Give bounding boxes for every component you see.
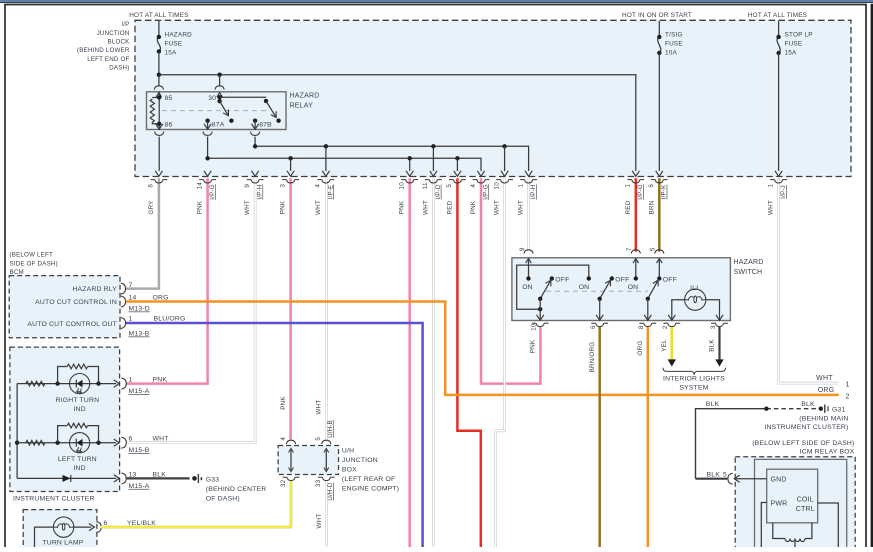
hazard fuse F1 <box>157 37 160 52</box>
U/H pass wire 5-33 <box>325 449 327 472</box>
svg-text:INSTRUMENT CLUSTER): INSTRUMENT CLUSTER) <box>764 424 848 431</box>
diode cluster <box>63 475 71 482</box>
svg-text:RED: RED <box>446 200 453 214</box>
svg-text:(BEHIND LOWER: (BEHIND LOWER <box>77 47 130 54</box>
switch pin10 bracket <box>536 323 544 326</box>
BCM pin1 bracket <box>121 318 126 329</box>
svg-text:1: 1 <box>846 381 850 388</box>
svg-text:HOT AT ALL TIMES: HOT AT ALL TIMES <box>748 12 807 19</box>
node common2 <box>598 297 602 301</box>
switch pin9 bracket <box>524 250 533 254</box>
hazard switch box <box>512 258 731 321</box>
node OFF3 <box>657 276 661 280</box>
wire BRN to switch pin5 <box>658 178 661 251</box>
svg-text:PNK: PNK <box>529 339 536 353</box>
svg-text:CTRL: CTRL <box>796 506 815 513</box>
svg-text:9: 9 <box>244 184 251 188</box>
svg-text:I/P-G: I/P-G <box>637 184 644 199</box>
svg-text:OF DASH): OF DASH) <box>206 496 240 503</box>
svg-text:M15-A: M15-A <box>129 388 150 395</box>
svg-text:FUSE: FUSE <box>165 40 183 47</box>
svg-text:8: 8 <box>638 325 645 329</box>
wire YEL interior <box>670 327 673 361</box>
wire RED to switch pin7 <box>635 178 638 251</box>
next page left border <box>871 4 873 547</box>
node relay 87A contact <box>229 119 233 123</box>
svg-text:ON: ON <box>579 284 590 291</box>
svg-text:10: 10 <box>399 182 406 190</box>
wire ILL left leg <box>672 300 685 321</box>
svg-text:M15-A: M15-A <box>129 483 150 490</box>
BCM pin7 bracket <box>121 283 126 294</box>
wire drop 325 <box>325 146 327 171</box>
wire BRN/ORG <box>598 327 601 547</box>
relay 86 arrow <box>156 124 163 130</box>
svg-text:INSTRUMENT CLUSTER: INSTRUMENT CLUSTER <box>13 495 95 502</box>
svg-text:PNK: PNK <box>280 200 287 214</box>
node busB 409 <box>408 156 412 160</box>
wire right turn row <box>17 383 116 385</box>
svg-text:WHT: WHT <box>316 514 323 529</box>
svg-text:DASH): DASH) <box>109 65 129 72</box>
svg-text:32: 32 <box>280 479 287 487</box>
wire PNK pin10 <box>408 178 411 547</box>
BCM box <box>9 276 120 338</box>
svg-text:I/P-J: I/P-J <box>780 185 787 199</box>
relay pin86 bracket <box>155 132 164 136</box>
node ON3 <box>634 276 638 280</box>
node busA 433 <box>431 144 435 148</box>
svg-text:BLK: BLK <box>153 471 167 478</box>
node relay 30a <box>217 95 221 99</box>
wire WHT pin1 to switch <box>527 178 530 251</box>
svg-text:G31: G31 <box>832 407 845 414</box>
svg-text:IND: IND <box>73 465 85 472</box>
node loop bottom <box>538 307 542 311</box>
node lt b <box>96 441 100 445</box>
cluster pin13 arrow <box>114 475 120 482</box>
bus fuse horizontal <box>159 75 636 171</box>
node relay 86 <box>157 122 161 126</box>
wire COIL CTRL lead <box>818 503 839 547</box>
ground G31 <box>819 407 823 411</box>
svg-text:BLK: BLK <box>801 401 815 408</box>
wire fuse3 down <box>778 53 780 171</box>
svg-text:U/H-B: U/H-B <box>327 420 334 438</box>
I/P junction block box <box>135 20 851 176</box>
node busA 504 <box>502 144 506 148</box>
resistor left turn shunt <box>58 426 68 443</box>
svg-text:7: 7 <box>626 247 633 251</box>
relay pin87A bracket <box>203 132 212 136</box>
svg-text:ORG: ORG <box>818 387 835 394</box>
svg-text:6: 6 <box>129 436 133 443</box>
hazard relay box <box>147 92 287 130</box>
wire BLK to G33 <box>126 477 190 479</box>
node rt a <box>55 381 59 385</box>
relay pin87B bracket <box>251 132 260 136</box>
resistor right turn shunt <box>58 367 68 384</box>
cluster pin6 arrow <box>114 439 120 446</box>
node relay 30b <box>217 99 221 103</box>
svg-text:WHT: WHT <box>153 436 169 443</box>
wire BLK icm up <box>696 409 767 479</box>
svg-text:AUTO CUT CONTROL OUT: AUTO CUT CONTROL OUT <box>27 321 117 328</box>
cluster pin1 arrow <box>114 380 120 387</box>
wire 86 to exit <box>158 137 160 171</box>
svg-text:STOP LP: STOP LP <box>785 32 813 39</box>
node common3 <box>646 297 650 301</box>
svg-text:BLK: BLK <box>706 401 720 408</box>
exit pin 1 RED x635.8 <box>632 171 639 177</box>
svg-text:TURN LAMP: TURN LAMP <box>42 539 83 546</box>
wire BLK to GND <box>696 478 728 480</box>
resistor right turn <box>26 381 45 386</box>
svg-text:AUTO CUT CONTROL IN: AUTO CUT CONTROL IN <box>35 299 117 306</box>
exit pin 3 PNK x290.6 <box>287 171 294 177</box>
svg-text:3: 3 <box>710 325 717 329</box>
node trunk left turn <box>15 441 19 445</box>
svg-text:87A: 87A <box>212 122 225 129</box>
svg-text:(LEFT REAR OF: (LEFT REAR OF <box>342 476 395 483</box>
wire drop 457 <box>456 158 458 171</box>
svg-text:BRN: BRN <box>648 200 655 214</box>
svg-text:IND: IND <box>73 406 85 413</box>
node fuse bus left <box>157 73 161 77</box>
svg-text:RIGHT TURN: RIGHT TURN <box>56 397 100 404</box>
switch arm3 <box>648 280 658 299</box>
wire common2 down <box>599 299 601 321</box>
svg-text:15A: 15A <box>165 49 178 56</box>
relay pin30 bracket <box>215 86 224 90</box>
wire fuse2 down <box>658 53 660 171</box>
svg-text:WHT: WHT <box>518 200 525 215</box>
relay bus 30 to right arm <box>220 96 266 98</box>
node common1 <box>538 297 542 301</box>
relay coil wire 85-86 <box>158 92 160 130</box>
node relay right arm top <box>264 99 268 103</box>
svg-text:OFF: OFF <box>555 276 569 283</box>
svg-text:15A: 15A <box>785 49 798 56</box>
wire WHT pin9 <box>126 178 255 442</box>
svg-text:BCM: BCM <box>10 269 24 276</box>
wire WHT I/P-J <box>779 178 839 383</box>
node ON1 <box>526 276 530 280</box>
LED left turn ind <box>70 433 90 453</box>
svg-text:BLU/ORG: BLU/ORG <box>154 316 186 323</box>
svg-text:4: 4 <box>470 184 477 188</box>
ICM coil <box>773 523 785 539</box>
wire common3 down <box>647 299 649 321</box>
svg-text:G33: G33 <box>206 477 219 484</box>
wire ORG auto cut in <box>126 302 839 395</box>
wire common1 down <box>539 299 541 321</box>
svg-text:RELAY: RELAY <box>290 103 314 110</box>
svg-text:5: 5 <box>315 437 322 441</box>
svg-text:U/H-D: U/H-D <box>327 482 334 501</box>
wire drop 409 <box>409 158 411 171</box>
wire relay 87A down <box>207 121 209 130</box>
BCM pin14 bracket <box>121 296 126 307</box>
node lt a <box>55 441 59 445</box>
svg-text:7: 7 <box>129 282 133 289</box>
svg-text:14: 14 <box>196 182 203 190</box>
svg-text:T/SIG: T/SIG <box>665 32 683 39</box>
relay switch arm left <box>220 101 229 116</box>
svg-text:FUSE: FUSE <box>785 40 803 47</box>
node busB 87A <box>205 156 209 160</box>
U/H junction box <box>278 446 338 475</box>
switch arm1 <box>540 280 551 299</box>
svg-text:BOX: BOX <box>342 467 357 474</box>
svg-text:6: 6 <box>590 325 597 329</box>
wire PNK pin3 <box>289 178 292 439</box>
wire pin7 to ON3 <box>635 258 637 278</box>
exit pin 4 WHT x325.9 <box>322 171 329 177</box>
svg-text:ENGINE COMPT): ENGINE COMPT) <box>342 485 399 492</box>
svg-text:WHT: WHT <box>816 375 833 382</box>
svg-text:M13-D: M13-D <box>129 306 150 313</box>
switch pin7 bracket <box>631 250 640 254</box>
svg-text:I/P-D: I/P-D <box>435 184 442 199</box>
wire PNK pin4 to switch <box>481 178 540 383</box>
svg-text:HAZARD RLY: HAZARD RLY <box>72 286 117 293</box>
svg-text:1: 1 <box>767 184 774 188</box>
svg-text:COIL: COIL <box>797 496 814 503</box>
node BLK splice <box>764 407 768 411</box>
svg-text:1: 1 <box>517 184 524 188</box>
ICM inner box <box>755 459 847 550</box>
svg-text:PNK: PNK <box>197 200 204 214</box>
lamp ILL <box>685 289 706 310</box>
exit pin 4 PNK x481 <box>477 171 484 177</box>
svg-text:GRY: GRY <box>148 200 155 215</box>
exit pin 1 WHT x778.6 <box>775 171 782 177</box>
relay switch arm right <box>266 101 276 117</box>
cluster trunk wire <box>16 384 18 479</box>
svg-text:M15-B: M15-B <box>129 447 150 454</box>
svg-text:10: 10 <box>531 323 538 331</box>
node relay 87B <box>253 119 257 123</box>
svg-text:BLOCK: BLOCK <box>108 39 131 46</box>
svg-text:ICM RELAY BOX: ICM RELAY BOX <box>800 448 855 455</box>
wire fuse3 feed <box>778 21 780 37</box>
wire PWR lead <box>761 503 766 548</box>
ICM module box <box>767 469 818 523</box>
svg-text:WHT: WHT <box>494 200 501 215</box>
svg-text:6: 6 <box>148 184 155 188</box>
relay coil K1 <box>152 97 159 99</box>
wire pin5 to OFF3 <box>658 258 660 278</box>
LED right turn ind <box>70 374 90 394</box>
svg-text:FUSE: FUSE <box>665 40 683 47</box>
wire WHT pin4 <box>325 178 328 439</box>
svg-text:I/P-E: I/P-E <box>327 185 334 200</box>
svg-text:ON: ON <box>628 284 639 291</box>
node busB 290 <box>288 156 292 160</box>
wire ground row <box>17 477 116 479</box>
svg-text:5: 5 <box>723 472 727 479</box>
svg-text:M13-B: M13-B <box>129 331 150 338</box>
wire turn lamp left <box>35 527 54 547</box>
turn lamp box <box>23 510 97 550</box>
wire drop 433 <box>432 146 434 171</box>
node relay 87B contact <box>276 119 280 123</box>
svg-text:LEFT END OF: LEFT END OF <box>87 56 129 63</box>
svg-text:2: 2 <box>662 325 669 329</box>
svg-text:WHT: WHT <box>422 200 429 215</box>
wire WHT pin11 <box>432 178 435 547</box>
svg-text:I/P-K: I/P-K <box>661 184 668 199</box>
svg-text:(BELOW LEFT SIDE OF DASH): (BELOW LEFT SIDE OF DASH) <box>752 440 854 447</box>
switch pin2 bracket <box>668 323 676 326</box>
svg-text:33: 33 <box>315 479 322 487</box>
switch pin3 bracket <box>716 323 724 326</box>
svg-text:10: 10 <box>493 182 500 190</box>
svg-text:87B: 87B <box>259 122 272 129</box>
U/H pin4 bracket <box>286 440 295 444</box>
switch arm2 <box>600 280 611 299</box>
wire YEL/BLK <box>101 480 291 527</box>
node ON2 <box>587 276 591 280</box>
svg-text:I/P-H: I/P-H <box>257 184 264 199</box>
wire ORG switch <box>647 327 650 547</box>
svg-text:85: 85 <box>165 95 173 102</box>
exit pin 14 PNK x207.6 <box>204 171 211 177</box>
wire fuse2 feed <box>658 21 660 37</box>
svg-text:WHT: WHT <box>768 200 775 215</box>
wire drop 504 <box>504 146 506 171</box>
node rt b <box>96 381 100 385</box>
t/sig fuse F2 <box>658 37 661 53</box>
U/H pin33 bracket <box>322 477 330 480</box>
svg-text:INTERIOR LIGHTS: INTERIOR LIGHTS <box>663 376 725 383</box>
wire fuse1 to bus <box>158 51 160 86</box>
switch loop <box>517 265 589 309</box>
exit pin 1 WHT x528.6 <box>525 171 532 177</box>
node busA 87B <box>253 144 257 148</box>
svg-text:HOT IN ON OR START: HOT IN ON OR START <box>622 12 692 19</box>
svg-text:GND: GND <box>771 477 787 484</box>
svg-text:I/P-G: I/P-G <box>482 184 489 199</box>
bus B <box>208 137 481 171</box>
wire WHT below U/H <box>325 481 328 547</box>
svg-text:ON: ON <box>522 284 533 291</box>
switch mech link <box>546 290 648 292</box>
wire GRY pin6 <box>126 178 159 288</box>
svg-text:4: 4 <box>315 184 322 188</box>
svg-text:JUNCTION: JUNCTION <box>342 457 378 464</box>
svg-text:1: 1 <box>129 377 133 384</box>
resistor left turn <box>26 440 45 445</box>
U/H pass wire 4-32 <box>290 449 292 472</box>
relay pin85 bracket <box>154 86 163 90</box>
svg-text:ORG: ORG <box>637 341 644 356</box>
svg-text:SIDE OF DASH): SIDE OF DASH) <box>10 260 58 267</box>
exit pin 6 GRY x158.9 <box>155 171 162 177</box>
svg-text:HAZARD: HAZARD <box>165 32 193 39</box>
wire GND lead <box>734 478 767 480</box>
svg-text:BLK: BLK <box>707 472 721 479</box>
svg-text:(BEHIND MAIN: (BEHIND MAIN <box>799 416 848 423</box>
ICM pin5 bracket <box>728 473 733 484</box>
wire WHT pin10 <box>495 178 504 547</box>
svg-text:86: 86 <box>165 122 173 129</box>
svg-text:LEFT TURN: LEFT TURN <box>58 456 97 463</box>
wire drop 290 <box>290 158 292 171</box>
U/H pin32 bracket <box>287 477 295 480</box>
svg-text:PNK: PNK <box>280 396 287 410</box>
bus A <box>255 137 528 171</box>
node relay 85 <box>157 95 161 99</box>
svg-text:10A: 10A <box>665 49 678 56</box>
svg-text:1: 1 <box>625 184 632 188</box>
stop lp fuse F3 <box>777 37 780 53</box>
switch pin8 bracket <box>644 323 652 326</box>
svg-text:BRN/ORG: BRN/ORG <box>589 342 596 373</box>
instrument cluster box <box>10 347 120 491</box>
wire BLU/ORG auto cut out <box>126 323 423 547</box>
svg-text:11: 11 <box>422 182 429 189</box>
wire to relay pin30 <box>219 75 221 87</box>
node busB 457 <box>455 156 459 160</box>
svg-text:RED: RED <box>625 200 632 214</box>
browser top bar <box>0 0 873 2</box>
wire ILL right leg <box>706 300 720 321</box>
svg-text:13: 13 <box>129 471 137 478</box>
wire turn lamp right <box>74 526 91 528</box>
wire PNK pin14 <box>126 178 208 383</box>
svg-text:6: 6 <box>648 184 655 188</box>
svg-text:(BEHIND CENTER: (BEHIND CENTER <box>206 486 267 493</box>
svg-text:SYSTEM: SYSTEM <box>679 385 708 392</box>
svg-text:U/H: U/H <box>342 448 354 455</box>
wire left turn row <box>17 442 116 444</box>
svg-text:PNK: PNK <box>153 377 168 384</box>
svg-text:PNK: PNK <box>470 200 477 214</box>
switch pin6 bracket <box>596 323 604 326</box>
svg-text:WHT: WHT <box>316 400 323 415</box>
exit pin 10 PNK x409.7 <box>406 171 413 177</box>
node bus pin30 <box>217 73 221 77</box>
svg-text:I/P: I/P <box>121 21 129 28</box>
svg-text:SWITCH: SWITCH <box>734 269 763 276</box>
svg-text:I/P-G: I/P-G <box>209 184 216 199</box>
node OFF1 <box>550 276 554 280</box>
exit pin 5 RED x457.4 <box>454 171 461 177</box>
wire relay 87B down <box>254 121 256 130</box>
svg-text:30: 30 <box>208 95 216 102</box>
turn lamp bulb <box>53 517 73 537</box>
exit pin 6 BRN x659.3 <box>656 171 663 177</box>
svg-text:OFF: OFF <box>615 276 629 283</box>
turn lamp pin arrow <box>89 524 95 531</box>
svg-text:3: 3 <box>279 184 286 188</box>
svg-text:2: 2 <box>846 394 850 401</box>
switch pin5 bracket <box>655 250 664 254</box>
svg-text:OFF: OFF <box>663 276 677 283</box>
svg-text:HAZARD: HAZARD <box>290 93 320 100</box>
svg-text:PWR: PWR <box>771 501 788 508</box>
svg-text:HAZARD: HAZARD <box>734 259 764 266</box>
interior lights brace <box>663 368 726 375</box>
svg-text:HOT AT ALL TIMES: HOT AT ALL TIMES <box>129 12 188 19</box>
exit pin 9 WHT x255.1 <box>252 171 259 177</box>
svg-text:1: 1 <box>129 316 133 323</box>
wire RED pin5 <box>457 178 480 547</box>
svg-text:I/P-H: I/P-H <box>530 184 537 199</box>
svg-text:WHT: WHT <box>315 200 322 215</box>
